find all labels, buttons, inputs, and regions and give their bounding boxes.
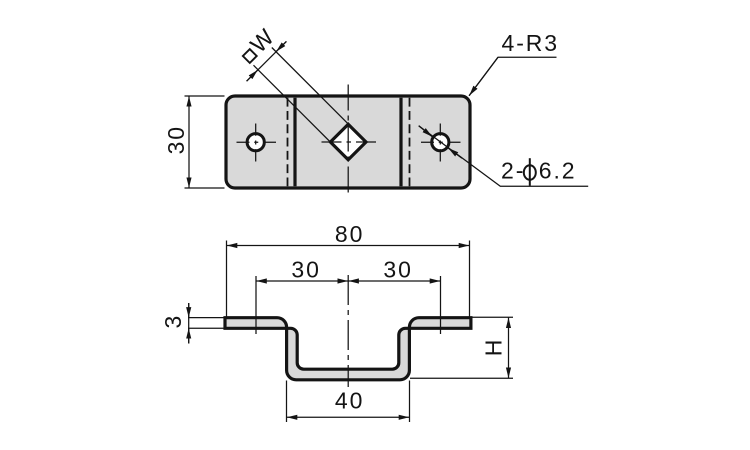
svg-text:4-R3: 4-R3 bbox=[502, 30, 559, 56]
leader 2-dia6.2 (through right hole) bbox=[419, 126, 589, 186]
svg-text:30: 30 bbox=[383, 256, 412, 282]
svg-text:30: 30 bbox=[291, 256, 320, 282]
W dim arrow upper bbox=[276, 41, 286, 51]
dim 30 (plate width) extension lines bbox=[185, 95, 225, 97]
hole right centerlines bbox=[421, 124, 461, 162]
dim H extension lines bbox=[472, 316, 513, 318]
svg-text:H: H bbox=[480, 338, 506, 357]
diamond vertical centerline bbox=[347, 85, 349, 198]
svg-text:3: 3 bbox=[160, 314, 186, 329]
dim 30 (plate width) label bbox=[163, 125, 189, 154]
dim H label bbox=[480, 338, 506, 357]
dim 30 right dimension line bbox=[348, 280, 440, 282]
svg-text:30: 30 bbox=[163, 125, 189, 154]
dim H dimension line bbox=[508, 318, 510, 378]
dim 3 dimension line with outside arrows bbox=[188, 303, 190, 344]
hole left bbox=[247, 134, 264, 151]
dim 30-30 extension lines bbox=[255, 276, 257, 334]
diamond horizontal centerline bbox=[322, 141, 377, 143]
W dim extension line lower (from diamond left vertex) bbox=[254, 65, 331, 142]
dim 80 dimension line bbox=[227, 245, 469, 247]
leader 4-R3 bbox=[469, 57, 557, 96]
svg-text:6.2: 6.2 bbox=[539, 158, 577, 184]
hidden bend line right (dashed) bbox=[409, 98, 411, 187]
hat channel metal (section outline) bbox=[225, 318, 471, 380]
dim 30 (plate width) dimension line bbox=[188, 96, 190, 188]
bend line left (solid) bbox=[293, 98, 296, 187]
svg-text:2-: 2- bbox=[501, 158, 525, 184]
hole left centerlines bbox=[237, 124, 277, 162]
plate body (top view) bbox=[226, 96, 470, 188]
section centerline bbox=[347, 275, 349, 387]
bend line right (solid) bbox=[399, 98, 402, 187]
dim 30 left dimension line bbox=[256, 280, 348, 282]
dim 3 extension lines bbox=[188, 317, 225, 319]
square hole (diamond) bbox=[330, 124, 366, 159]
dim 40 dimension line bbox=[287, 416, 409, 418]
W dim arrow lower bbox=[247, 70, 258, 81]
hole right bbox=[432, 134, 449, 151]
W dim extension line upper (from diamond top vertex) bbox=[272, 48, 348, 124]
svg-text:80: 80 bbox=[335, 221, 364, 247]
dim 40 extension lines bbox=[286, 381, 288, 423]
hidden bend line left (dashed) bbox=[287, 98, 289, 187]
svg-text:40: 40 bbox=[335, 388, 364, 414]
W label (square symbol + W) rotated bbox=[236, 23, 281, 68]
dim 3 label bbox=[160, 314, 186, 329]
W dimension line bbox=[247, 41, 287, 81]
dim 80 extension lines bbox=[226, 241, 228, 318]
